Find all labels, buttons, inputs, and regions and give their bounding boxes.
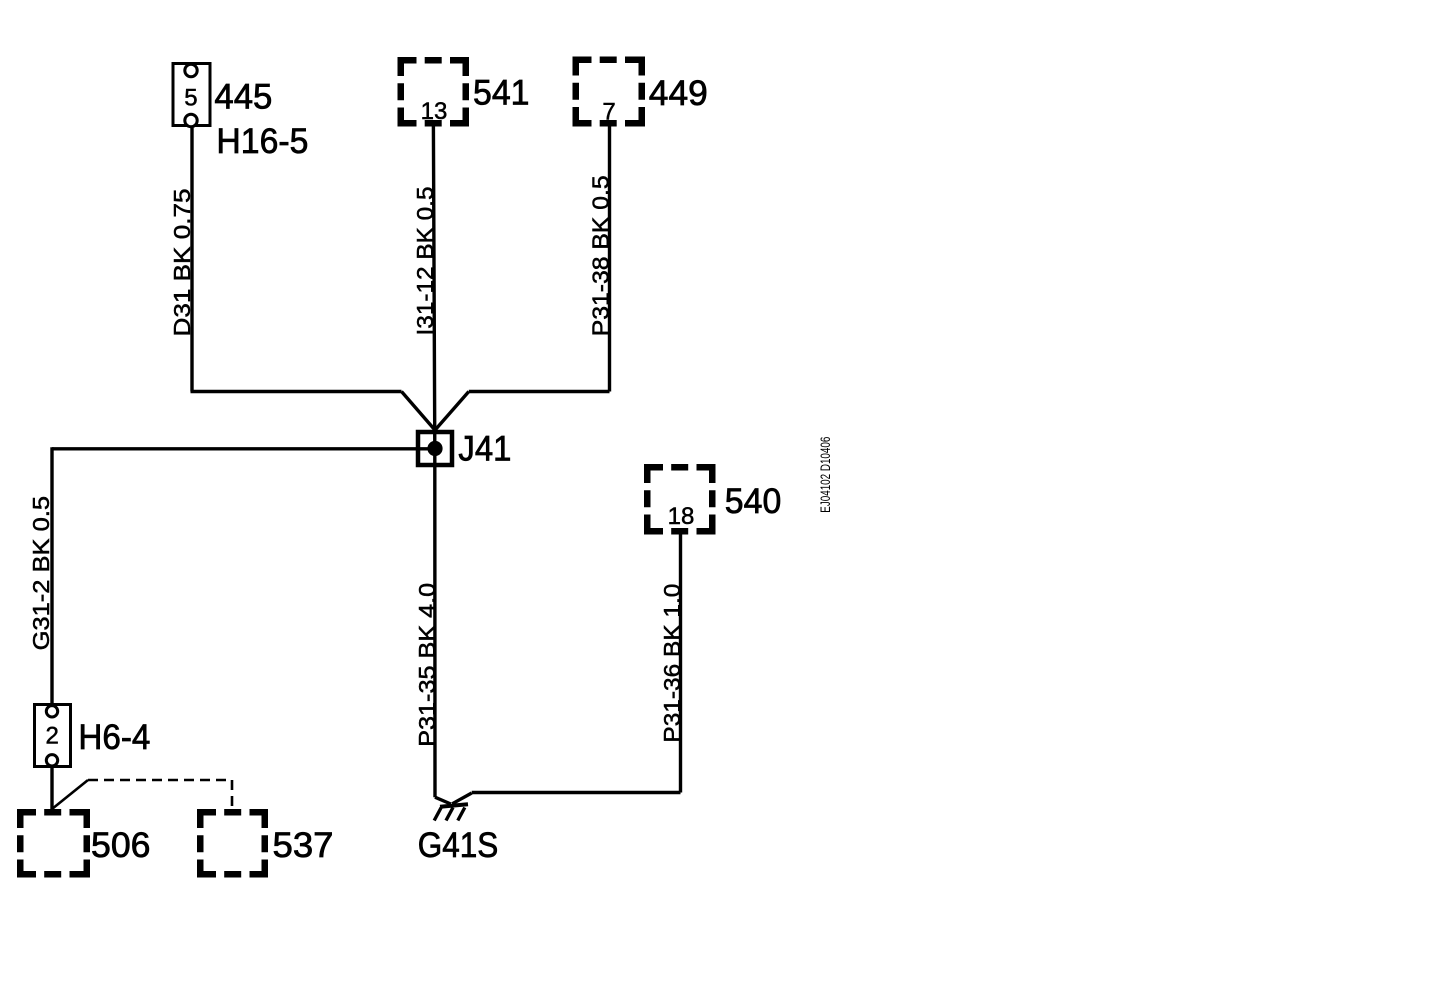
wire diagonal from 540 into ground point	[452, 793, 472, 804]
wire diagonal from 506 top up-right	[52, 780, 88, 809]
svg-text:537: 537	[273, 826, 334, 865]
svg-text:449: 449	[649, 74, 708, 113]
connector 445 top contact circle	[185, 64, 197, 76]
svg-text:H6-4: H6-4	[78, 718, 150, 757]
svg-text:G31-2 BK 0.5: G31-2 BK 0.5	[28, 496, 54, 651]
wire horizontal from 445 toward J41	[191, 390, 402, 393]
svg-text:P31-38 BK 0.5: P31-38 BK 0.5	[588, 175, 614, 336]
junction J41 dot	[427, 441, 442, 456]
svg-text:5: 5	[184, 84, 197, 111]
connector H6-4 bottom contact circle	[46, 755, 57, 766]
wire from 541 pin 13 down through J41 to ground	[433, 127, 435, 798]
wire from J41 left	[52, 447, 435, 450]
wire horizontal from 449 toward J41	[469, 390, 610, 393]
dashed wire vertical down to 537	[231, 780, 234, 809]
wire from 449 pin 7 down	[608, 127, 611, 392]
connector 445 bottom contact circle	[185, 114, 197, 126]
connector 506 dashed box	[20, 812, 87, 874]
wire from 445 pin 5 down	[190, 126, 193, 392]
wire from 540 pin 18 down	[679, 535, 682, 793]
svg-text:13: 13	[421, 98, 448, 125]
svg-text:540: 540	[725, 482, 782, 521]
wire diagonal from 445 branch into J41	[402, 392, 435, 430]
svg-text:EJ04102 D10406: EJ04102 D10406	[817, 437, 833, 513]
svg-text:P31-36 BK 1.0: P31-36 BK 1.0	[659, 584, 685, 743]
wire diagonal into ground point	[435, 797, 451, 804]
svg-text:18: 18	[668, 503, 695, 530]
svg-text:7: 7	[602, 99, 615, 126]
svg-text:H16-5: H16-5	[216, 122, 308, 161]
ground G41S hatch 1	[434, 808, 441, 821]
svg-text:D31 BK 0.75: D31 BK 0.75	[169, 189, 195, 337]
connector 445 body	[173, 64, 210, 126]
wire diagonal from 449 branch into J41	[435, 392, 469, 430]
connector 537 dashed box	[200, 812, 265, 874]
svg-text:506: 506	[91, 826, 151, 865]
svg-text:G41S: G41S	[418, 826, 499, 865]
junction J41 box	[418, 432, 452, 465]
wire down left side to H6-4	[50, 447, 53, 704]
svg-text:I31-12 BK 0.5: I31-12 BK 0.5	[412, 187, 438, 336]
connector 541 dashed box	[401, 60, 466, 123]
ground G41S bar	[440, 804, 468, 807]
wire horizontal from 540 toward ground	[472, 791, 681, 794]
dashed wire horizontal to 537	[88, 779, 232, 782]
ground G41S hatch 3	[458, 808, 465, 821]
svg-text:445: 445	[214, 77, 272, 116]
svg-text:J41: J41	[458, 430, 511, 469]
connector 540 dashed box	[647, 467, 712, 531]
connector H6-4 body	[35, 705, 71, 767]
connector H6-4 top contact circle	[46, 706, 57, 717]
svg-text:P31-35 BK 4.0: P31-35 BK 4.0	[414, 583, 440, 747]
connector 449 dashed box	[576, 60, 642, 124]
svg-text:541: 541	[473, 74, 530, 113]
svg-text:2: 2	[46, 723, 59, 750]
wire from H6-4 down to 506	[50, 768, 53, 810]
ground G41S hatch 2	[446, 808, 453, 821]
